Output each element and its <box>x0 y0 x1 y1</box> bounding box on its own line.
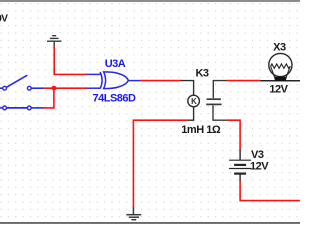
label X3 <box>273 42 286 54</box>
xor gate U3A 74LS86D <box>87 72 141 89</box>
wire: top switch to gate input B <box>43 87 87 89</box>
ground GND2 (bottom) <box>126 207 141 219</box>
bottom window border <box>0 222 300 224</box>
label V3 <box>251 149 264 161</box>
junction node <box>52 86 57 91</box>
svg-text:12V: 12V <box>250 160 269 172</box>
top window border <box>0 0 300 1</box>
switch S1 (open, top) <box>0 75 43 90</box>
relay K3 coil <box>181 81 200 121</box>
svg-text:0V: 0V <box>0 14 8 25</box>
svg-text:12V: 12V <box>269 84 288 96</box>
label K in coil <box>191 97 197 106</box>
label 12V (lamp) <box>269 84 288 96</box>
label 1mH 1Ω <box>181 124 221 136</box>
wire: gate output to relay coil <box>140 80 181 82</box>
relay K3 contact <box>206 81 227 121</box>
label K3 <box>195 68 208 80</box>
wire: junction down to bottom switch <box>43 88 54 108</box>
battery V3 <box>229 150 251 181</box>
lamp X3 <box>260 53 300 81</box>
switch S2 (closed, bottom) <box>0 106 43 110</box>
svg-text:74LS86D: 74LS86D <box>93 93 137 105</box>
svg-text:K: K <box>191 97 197 106</box>
svg-text:V3: V3 <box>251 149 264 161</box>
wire: coil bottom to ground <box>133 120 188 208</box>
svg-text:1mH 1Ω: 1mH 1Ω <box>181 124 221 136</box>
wire: ground GND1 to gate input A <box>54 46 87 74</box>
wire: contact bottom to battery <box>227 120 240 150</box>
label 74LS86D <box>93 93 137 105</box>
label U3A <box>105 58 126 70</box>
svg-text:X3: X3 <box>273 42 286 54</box>
svg-text:K3: K3 <box>195 68 208 80</box>
label 0V (clipped at left edge) <box>0 14 8 25</box>
label 12V (battery) <box>250 160 269 172</box>
svg-text:U3A: U3A <box>105 58 126 70</box>
wire: relay contact to lamp <box>227 80 261 82</box>
ground GND1 (inverted, top) <box>47 36 61 47</box>
wire: battery bottom to right edge <box>240 181 300 201</box>
